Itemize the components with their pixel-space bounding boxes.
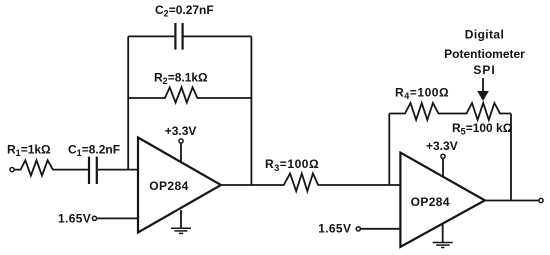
svg-text:OP284: OP284 xyxy=(149,179,188,193)
svg-text:C1=8.2nF: C1=8.2nF xyxy=(68,142,120,158)
svg-text:SPI: SPI xyxy=(473,63,495,77)
svg-text:Potentiometer: Potentiometer xyxy=(444,47,525,61)
svg-text:C2=0.27nF: C2=0.27nF xyxy=(155,3,214,19)
svg-text:R5=100 kΩ: R5=100 kΩ xyxy=(452,121,513,137)
svg-text:1.65V: 1.65V xyxy=(318,222,351,236)
svg-text:R3=100Ω: R3=100Ω xyxy=(265,157,319,173)
svg-text:OP284: OP284 xyxy=(411,195,450,209)
svg-text:Digital: Digital xyxy=(465,28,504,42)
svg-text:R1=1kΩ: R1=1kΩ xyxy=(7,142,51,158)
svg-text:R2=8.1kΩ: R2=8.1kΩ xyxy=(154,70,208,86)
svg-text:+3.3V: +3.3V xyxy=(165,124,197,138)
svg-text:1.65V: 1.65V xyxy=(58,211,91,225)
svg-text:+3.3V: +3.3V xyxy=(426,139,458,153)
svg-text:R4=100Ω: R4=100Ω xyxy=(395,85,449,101)
